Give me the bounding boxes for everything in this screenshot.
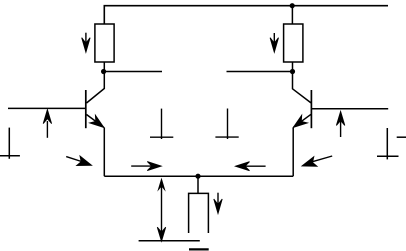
node right collector junction	[290, 69, 295, 74]
wire V+ supply rail	[104, 6, 388, 24]
current arrow left emitter (diagonal)	[66, 156, 91, 166]
voltage arrow right input vI2	[336, 111, 344, 137]
wire left output stub	[104, 71, 162, 73]
right input terminal	[377, 128, 406, 159]
current arrow I bias	[214, 193, 222, 214]
wire Q2 base lead	[311, 108, 388, 110]
voltage arrow tail-to-ground (double headed)	[157, 178, 165, 242]
current arrow through R1	[82, 33, 90, 53]
transistor Q2	[293, 72, 312, 129]
current arrow left tail (horizontal)	[131, 162, 161, 171]
current arrow right tail (horizontal)	[236, 162, 266, 171]
voltage arrow left input vI1	[43, 110, 51, 138]
current source I (open-bottom box)	[189, 193, 209, 233]
node tail junction	[195, 174, 200, 179]
node left probe (T symbol)	[150, 109, 173, 139]
transistor Q1	[86, 72, 105, 129]
resistor R1	[95, 24, 114, 62]
ground	[139, 241, 209, 250]
wire tail to current source	[197, 176, 199, 193]
node supply junction	[290, 3, 295, 8]
current arrow through R2	[270, 33, 278, 52]
node right probe (T symbol)	[215, 109, 238, 140]
wire R1 bottom to collector node	[103, 62, 105, 72]
wire Q1 emitter lead	[103, 127, 105, 176]
node left collector junction	[101, 69, 106, 74]
wire right output stub	[227, 71, 293, 73]
current arrow right emitter (diagonal)	[302, 156, 332, 166]
resistor R2	[284, 24, 303, 62]
wire Q1 base lead	[8, 107, 86, 109]
left input terminal	[0, 128, 20, 159]
wire R2 top stub	[291, 6, 293, 24]
wire common tail	[104, 175, 293, 177]
wire R2 bottom to collector node	[292, 62, 294, 72]
wire Q2 emitter lead	[292, 127, 294, 176]
